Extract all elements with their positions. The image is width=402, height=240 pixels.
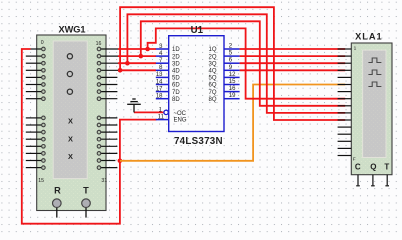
svg-text:X: X: [68, 134, 73, 143]
wire U1 3Q to XLA1 pin 3: [240, 62, 346, 64]
svg-text:F: F: [353, 156, 356, 162]
junction net4: [118, 68, 123, 73]
wire XWG1 pin16 to U1 1D: [118, 48, 156, 50]
logic analyzer XLA1: [351, 43, 392, 175]
U1 right pin stubs: [224, 49, 240, 99]
svg-text:2D: 2D: [172, 54, 180, 60]
svg-text:4Q: 4Q: [208, 69, 216, 75]
svg-text:X: X: [68, 117, 73, 126]
svg-text:18: 18: [156, 94, 163, 100]
wire XWG1 pin17 to U1 2D: [118, 55, 156, 57]
XWG1 left pin sockets: [42, 47, 46, 169]
XLA1 Q terminal: [371, 175, 375, 186]
svg-text:3Q: 3Q: [208, 61, 216, 67]
svg-text:8Q: 8Q: [208, 97, 216, 103]
wire over-the-top net2 to XLA1 pin 9: [141, 21, 345, 106]
svg-text:~OC: ~OC: [174, 111, 187, 117]
svg-text:19: 19: [229, 93, 236, 99]
svg-text:7D: 7D: [172, 90, 180, 96]
U1 ~OC inversion bubble pin 1: [164, 110, 168, 114]
U1 left pin numbers: [156, 44, 165, 121]
U1 left pin stubs: [156, 49, 169, 120]
svg-text:7Q: 7Q: [208, 90, 216, 96]
svg-text:3D: 3D: [172, 61, 180, 67]
svg-text:5Q: 5Q: [208, 76, 216, 82]
wire U1 2Q to XLA1 pin 2: [240, 55, 346, 57]
svg-text:0: 0: [41, 40, 44, 46]
junction net3: [125, 61, 130, 66]
svg-text:C: C: [355, 163, 361, 172]
svg-text:15: 15: [38, 178, 44, 184]
svg-text:8D: 8D: [172, 97, 180, 103]
XWG1 right pin sockets: [97, 47, 101, 169]
wire orange: clock net to XLA1 pin 6: [120, 85, 345, 161]
svg-text:Q: Q: [370, 163, 376, 172]
svg-text:74LS373N: 74LS373N: [174, 136, 223, 147]
XWG1 display X marks: [68, 117, 73, 161]
svg-text:U1: U1: [191, 25, 204, 36]
svg-text:5D: 5D: [172, 76, 180, 82]
svg-text:XLA1: XLA1: [355, 31, 383, 41]
XWG1 corner pin index labels: [38, 40, 107, 184]
wire net: XWG1 pin0 loop to U1 ENG (clock net): [22, 49, 157, 224]
word generator XWG1: [37, 35, 106, 211]
U1 inner pin names Q side: [208, 47, 216, 103]
svg-text:ENG: ENG: [174, 118, 187, 124]
XLA1 waveform icons: [368, 58, 381, 87]
XLA1 C Q T labels: [355, 163, 389, 172]
XWG1 R T terminal labels: [54, 185, 89, 195]
XLA1 input pins 1-16: [338, 49, 352, 156]
wire U1 1Q to XLA1 pin 1: [240, 48, 346, 50]
ground: [127, 99, 141, 112]
svg-text:1Q: 1Q: [208, 47, 216, 53]
XWG1 T terminal: [82, 199, 91, 218]
svg-text:XWG1: XWG1: [58, 24, 85, 34]
wire XWG1 pin18 to U1 3D: [118, 62, 156, 64]
wire ground to U1 ~OC: [134, 111, 163, 113]
svg-text:15: 15: [229, 79, 236, 85]
svg-text:16: 16: [229, 86, 236, 92]
wire U1 4Q to XLA1 pin 4: [240, 69, 346, 71]
svg-text:1D: 1D: [172, 47, 180, 53]
XWG1 left pins 0-15: [26, 49, 42, 168]
svg-text:6D: 6D: [172, 83, 180, 89]
svg-text:12: 12: [229, 72, 236, 78]
svg-text:17: 17: [156, 86, 163, 92]
svg-text:2Q: 2Q: [208, 54, 216, 60]
wire over-the-top net1 to XLA1 pin 8: [148, 28, 346, 98]
svg-text:16: 16: [96, 41, 102, 47]
XWG1 R terminal: [53, 199, 62, 218]
wire over-the-top net4 to XLA1 pin 11: [120, 7, 345, 120]
XLA1 C terminal: [356, 175, 360, 186]
U1 right pin numbers: [229, 44, 236, 100]
svg-text:4D: 4D: [172, 69, 180, 75]
svg-text:T: T: [384, 163, 389, 172]
svg-text:31: 31: [101, 178, 107, 184]
svg-text:R: R: [54, 185, 61, 195]
IC U1 body: [169, 36, 224, 132]
svg-text:11: 11: [158, 115, 165, 121]
svg-text:1: 1: [354, 46, 357, 52]
XWG1 right pins 16-31: [101, 49, 118, 168]
XWG1 display O circles: [67, 54, 72, 95]
junction net2: [139, 54, 144, 59]
junction net1: [145, 47, 150, 52]
svg-text:X: X: [68, 152, 73, 161]
svg-text:T: T: [83, 185, 89, 195]
wire over-the-top net3 to XLA1 pin 10: [127, 14, 345, 113]
svg-text:6Q: 6Q: [208, 83, 216, 89]
svg-text:14: 14: [156, 79, 163, 85]
junction on clock net at XWG1 pin30: [118, 159, 123, 164]
svg-text:13: 13: [156, 72, 163, 78]
wire XWG1 pin19 to U1 4D: [118, 69, 156, 71]
XLA1 T terminal: [385, 175, 389, 186]
U1 inner pin names D side: [172, 47, 187, 123]
